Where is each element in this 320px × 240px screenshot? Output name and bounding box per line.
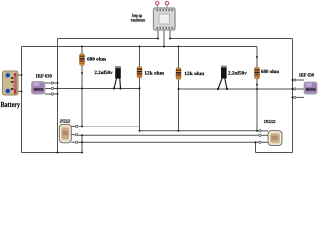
- svg-text:12k ohm: 12k ohm: [144, 71, 164, 77]
- svg-text:transformer: transformer: [131, 17, 146, 23]
- svg-text:2N2222: 2N2222: [60, 119, 71, 124]
- svg-text:12k ohm: 12k ohm: [184, 71, 205, 77]
- svg-text:2.2uf50v: 2.2uf50v: [228, 70, 247, 76]
- svg-text:9.00: 9.00: [10, 77, 15, 90]
- svg-text:IRF630: IRF630: [306, 88, 316, 92]
- svg-text:Battery: Battery: [1, 100, 21, 109]
- svg-text:2.2uf50v: 2.2uf50v: [94, 70, 113, 76]
- svg-text:680 ohm: 680 ohm: [261, 69, 280, 75]
- svg-text:IRF 630: IRF 630: [36, 74, 52, 80]
- svg-text:2N2222: 2N2222: [264, 119, 276, 124]
- svg-text:IRF 630: IRF 630: [299, 73, 314, 79]
- svg-text:680 ohm: 680 ohm: [87, 57, 107, 63]
- svg-text:IRF630: IRF630: [34, 88, 44, 92]
